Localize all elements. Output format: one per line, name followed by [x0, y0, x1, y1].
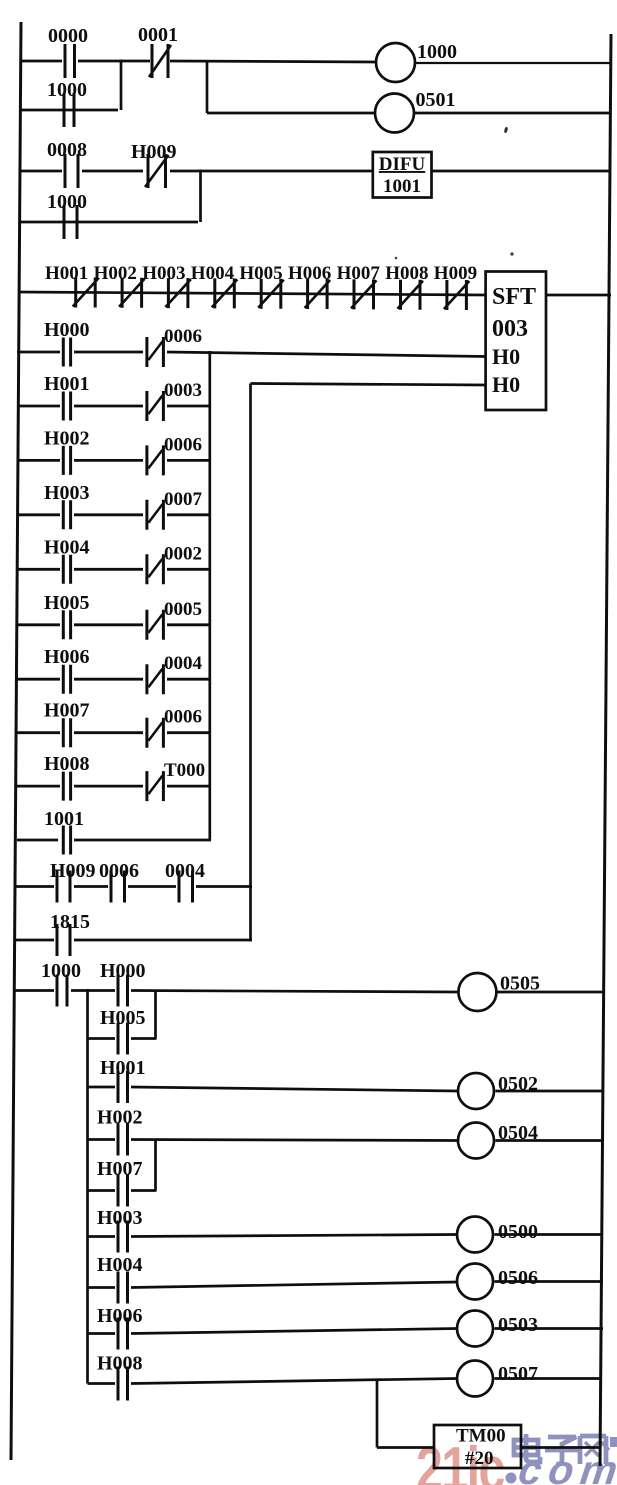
wire TM00 to right rail	[521, 1446, 601, 1449]
scan speck	[504, 126, 509, 133]
contact H007 (NC) shift-reset chain	[337, 263, 381, 309]
wire bus 3 to H008	[88, 1382, 116, 1385]
contact 0006 (NO)	[99, 860, 139, 903]
svg-text:H006: H006	[288, 263, 331, 284]
contact 0004 (NO)	[165, 860, 205, 903]
wire bus 3 to H003	[88, 1235, 116, 1238]
contact H005 (NO) parallel with H000	[100, 1007, 146, 1055]
wire H006 to 0004	[74, 678, 143, 681]
wire left rail to 1000	[14, 989, 54, 992]
svg-text:DIFU: DIFU	[379, 154, 426, 175]
contact H001 (NC) shift-reset chain	[45, 263, 98, 308]
contact 1000 (NO) parallel	[47, 191, 87, 239]
contact 0008 (NO)	[47, 139, 87, 188]
contact 0005 (NC) row H005	[147, 599, 202, 640]
wire T000 to vertical bus 1	[167, 785, 211, 788]
svg-text:H002: H002	[97, 1107, 143, 1129]
contact H002 (NC) shift-reset chain	[94, 263, 145, 308]
svg-text:H004: H004	[97, 1254, 143, 1276]
wire rung E series NC chain	[19, 292, 486, 295]
watermark blue square right edge	[610, 1437, 617, 1447]
wire left rail to H009	[15, 885, 54, 888]
contact 1000 (NO) parallel seal-in	[47, 79, 87, 127]
timer block TM00 #20	[434, 1425, 521, 1469]
wire 0001 to coil 1000	[170, 61, 377, 62]
wire bus 3 to H004	[88, 1286, 116, 1289]
contact H006 (NO)	[97, 1305, 143, 1350]
wire coil 0501 to right rail	[414, 112, 611, 115]
wire left rail to 1815	[14, 939, 54, 942]
wire SFT output to right rail	[546, 294, 611, 297]
wire bus 2 to SFT clock input H0	[251, 384, 487, 386]
contact H006 (NO) data input row	[44, 646, 90, 694]
svg-text:H005: H005	[239, 263, 282, 284]
svg-text:#20: #20	[465, 1448, 494, 1469]
wire H002 to 0006	[74, 459, 143, 462]
wire 1815 to vertical bus 2	[74, 939, 252, 942]
wire left rail to H000	[17, 351, 60, 354]
svg-text:1000: 1000	[47, 191, 87, 213]
svg-text:H000: H000	[100, 960, 146, 982]
watermark char zi	[545, 1437, 579, 1464]
wire 0008 to H009	[82, 170, 143, 173]
svg-text:H009: H009	[50, 860, 96, 882]
wire 0006 to 0004	[128, 885, 176, 888]
wire H000 row to SFT data input H0	[167, 352, 486, 357]
svg-text:H009: H009	[434, 263, 477, 284]
svg-text:H007: H007	[97, 1158, 143, 1180]
wire 0004 to vertical bus 2	[196, 885, 252, 888]
svg-text:H002: H002	[94, 263, 137, 284]
wire 1000 to H000	[71, 989, 115, 992]
wire coil 0502 to right rail	[496, 1090, 604, 1093]
contact H000 (NO) data input row	[44, 319, 90, 367]
svg-text:0503: 0503	[498, 1314, 538, 1336]
contact H006 (NC) shift-reset chain	[288, 263, 331, 309]
wire branch to TM00 box	[377, 1446, 434, 1449]
contact 0000 (NO)	[48, 25, 88, 78]
wire rung B parallel branch	[21, 109, 118, 112]
svg-text:0004: 0004	[165, 860, 205, 882]
svg-text:1001: 1001	[383, 176, 421, 197]
svg-text:H003: H003	[44, 482, 90, 504]
wire coil 0505 to right rail	[497, 991, 604, 994]
wire DIFU to right rail	[432, 170, 611, 173]
wire left rail to H003	[17, 513, 60, 516]
contact T000 (NC) row H008	[147, 760, 205, 801]
output coil 0505	[458, 973, 540, 1012]
contact H001 (NO)	[100, 1057, 146, 1103]
svg-text:1000: 1000	[41, 960, 81, 982]
svg-text:0006: 0006	[164, 326, 202, 347]
wire H004 to 0002	[74, 568, 143, 571]
contact H009 (NC)	[131, 141, 177, 188]
svg-text:TM00: TM00	[456, 1426, 506, 1447]
wire coil 0503 to right rail	[495, 1327, 604, 1330]
watermark .com	[506, 1473, 517, 1484]
svg-text:H004: H004	[191, 263, 235, 284]
output coil 0507	[457, 1361, 538, 1397]
wire bus 3 to H001	[88, 1086, 116, 1089]
wire H000 to 0006	[74, 351, 143, 354]
wire rung D parallel branch	[20, 221, 198, 224]
svg-text:H006: H006	[44, 646, 90, 668]
output coil 0500	[457, 1217, 538, 1253]
svg-text:H008: H008	[97, 1353, 143, 1375]
contact 0002 (NC) row H004	[147, 543, 202, 584]
contact H007 (NO) data input row	[44, 700, 90, 748]
svg-text:1815: 1815	[50, 911, 90, 933]
contact H001 (NO) data input row	[44, 373, 90, 421]
svg-text:H005: H005	[44, 592, 90, 614]
svg-text:0507: 0507	[498, 1363, 538, 1385]
wire bus 3 to H005	[88, 1037, 116, 1040]
wire coil 0500 to right rail	[495, 1233, 604, 1236]
svg-text:1001: 1001	[44, 808, 84, 830]
output coil 1000	[376, 41, 457, 82]
wire 0003 to vertical bus 1	[167, 405, 211, 408]
wire 0002 to vertical bus 1	[167, 568, 211, 571]
wire coil 0504 to right rail	[496, 1139, 604, 1142]
wire H007 to 0006	[74, 731, 143, 734]
wire branch to coil 0501	[207, 112, 376, 115]
svg-text:com: com	[516, 1447, 617, 1485]
wire vertical branch to TM00	[376, 1380, 379, 1448]
wire H003 to coil 0500	[131, 1235, 457, 1237]
contact H008 (NC) shift-reset chain	[385, 263, 428, 310]
wire left rail to H007	[17, 731, 60, 734]
wire 0005 to vertical bus 1	[167, 623, 211, 626]
right power rail	[600, 34, 611, 1466]
output coil 0504	[458, 1122, 538, 1159]
contact H009 (NO)	[50, 860, 96, 903]
watermark char dian	[514, 1434, 540, 1462]
contact 0007 (NC) row H003	[147, 489, 203, 530]
wire vertical bus 1 collecting data rows	[208, 351, 211, 840]
contact H003 (NO) data input row	[44, 482, 90, 530]
wire H003 to 0007	[74, 513, 143, 516]
output coil 0501	[375, 89, 456, 133]
wire vertical rejoin H005	[154, 991, 157, 1039]
contact H009 (NC) shift-reset chain	[434, 263, 477, 310]
contact H004 (NC) shift-reset chain	[191, 263, 238, 308]
contact 0006 (NC) row H007	[147, 707, 202, 748]
wire bus 3 to H006	[88, 1332, 116, 1335]
left power rail	[11, 22, 21, 1460]
svg-text:0007: 0007	[164, 489, 203, 510]
contact H004 (NO) data input row	[44, 536, 90, 584]
wire H001 to 0003	[74, 405, 143, 408]
svg-text:0000: 0000	[48, 25, 88, 47]
svg-text:0501: 0501	[416, 89, 456, 111]
contact 0004 (NC) row H006	[147, 653, 203, 694]
svg-text:003: 003	[492, 316, 528, 342]
svg-text:H003: H003	[97, 1207, 143, 1229]
output coil 0503	[457, 1311, 538, 1347]
contact H003 (NC) shift-reset chain	[142, 263, 191, 308]
svg-text:0003: 0003	[164, 380, 202, 401]
contact H008 (NO)	[97, 1353, 143, 1401]
function block DIFU 1001	[373, 152, 432, 198]
contact H000 (NO)	[100, 960, 146, 1007]
wire H001 to coil 0502	[131, 1087, 458, 1091]
svg-text:T000: T000	[164, 760, 205, 781]
wire H006 to coil 0503	[131, 1329, 457, 1334]
svg-text:1000: 1000	[417, 41, 457, 63]
scan speck	[510, 252, 513, 255]
wire H009 to 0006	[74, 885, 108, 888]
svg-text:H0: H0	[492, 372, 520, 397]
contact H007 (NO) parallel with H002	[97, 1158, 143, 1207]
svg-text:H006: H006	[97, 1305, 143, 1327]
wire rung A from left rail	[20, 60, 62, 63]
wire 0006 to vertical bus 1	[167, 731, 211, 734]
svg-text:SFT: SFT	[492, 284, 536, 310]
wire 1001 to vertical bus 1	[74, 839, 211, 842]
wire H009 to DIFU box	[170, 170, 373, 173]
svg-text:0002: 0002	[164, 543, 202, 564]
wire rung C from left rail	[20, 170, 62, 173]
svg-text:0005: 0005	[164, 599, 202, 620]
svg-text:H001: H001	[45, 263, 88, 284]
contact 0006 (NC) row H000	[147, 326, 202, 367]
svg-text:0500: 0500	[498, 1221, 538, 1243]
wire 0000 to 0001	[78, 60, 150, 63]
wire left rail to H006	[17, 678, 60, 681]
svg-text:H008: H008	[385, 263, 428, 284]
wire H000 to coil 0505	[131, 991, 459, 993]
svg-text:H003: H003	[142, 263, 185, 284]
contact 0006 (NC) row H002	[147, 434, 202, 475]
wire H008 to T000	[74, 785, 143, 788]
wire H002 to coil 0504	[131, 1140, 458, 1141]
svg-text:0001: 0001	[138, 24, 178, 46]
wire vertical rejoin H007	[154, 1140, 157, 1191]
contact H004 (NO)	[97, 1254, 143, 1304]
contact 1000 (NO) lower	[41, 960, 81, 1007]
wire left rail to H004	[17, 568, 60, 571]
scan speck	[395, 257, 398, 260]
svg-text:0004: 0004	[164, 653, 203, 674]
wire 0007 to vertical bus 1	[167, 513, 211, 516]
wire bus 3 to H007	[88, 1189, 116, 1192]
output coil 0506	[457, 1264, 538, 1300]
wire 0006 to vertical bus 1	[167, 459, 211, 462]
svg-text:H002: H002	[44, 427, 90, 449]
wire coil 1000 to right rail	[415, 62, 611, 64]
contact H005 (NO) data input row	[44, 592, 90, 640]
svg-text:0008: 0008	[47, 139, 87, 161]
watermark 21ic red text	[416, 1434, 505, 1485]
wire left rail to H001	[17, 405, 60, 408]
contact 1001 (NO) row	[44, 808, 84, 855]
svg-text:0006: 0006	[164, 434, 202, 455]
svg-text:H001: H001	[44, 373, 90, 395]
wire vertical bus 2 to SFT clock input	[249, 384, 252, 942]
svg-text:H001: H001	[100, 1057, 146, 1079]
svg-text:H004: H004	[44, 536, 90, 558]
contact H002 (NO)	[97, 1107, 143, 1156]
wire coil 0507 to right rail	[495, 1377, 603, 1380]
wire H005 rejoin	[131, 1037, 157, 1040]
svg-text:H007: H007	[337, 263, 381, 284]
contact H008 (NO) data input row	[44, 753, 90, 801]
watermark char wang	[580, 1436, 609, 1464]
output coil 0502	[458, 1073, 538, 1109]
wire coil 0506 to right rail	[495, 1280, 604, 1283]
svg-text:H005: H005	[100, 1007, 146, 1029]
svg-text:H008: H008	[44, 753, 90, 775]
contact 0003 (NC) row H001	[147, 380, 202, 421]
svg-text:H009: H009	[131, 141, 177, 163]
svg-text:0006: 0006	[99, 860, 139, 882]
svg-text:0506: 0506	[498, 1267, 538, 1289]
svg-text:0006: 0006	[164, 707, 202, 728]
wire 0004 to vertical bus 1	[167, 678, 211, 681]
wire H008 to coil 0507	[131, 1379, 457, 1384]
contact H005 (NC) shift-reset chain	[239, 263, 283, 309]
wire H004 to coil 0506	[131, 1282, 457, 1288]
wire left rail to H008	[17, 785, 60, 788]
wire left rail to 1001	[17, 839, 58, 842]
wire vertical bus 3 branch distribution	[86, 989, 89, 1384]
wire left rail to H005	[17, 623, 60, 626]
wire bus 3 to H002	[88, 1138, 116, 1141]
svg-text:H007: H007	[44, 700, 90, 722]
wire left rail to H002	[17, 459, 60, 462]
function block SFT 003 H0 H0 shift register	[486, 272, 546, 411]
contact H003 (NO)	[97, 1207, 143, 1253]
svg-text:1000: 1000	[47, 79, 87, 101]
svg-text:H000: H000	[44, 319, 90, 341]
wire vertical branch to 0501 rung	[206, 60, 209, 113]
wire H005 to 0005	[74, 623, 143, 626]
svg-text:H0: H0	[492, 344, 520, 369]
contact H002 (NO) data input row	[44, 427, 90, 475]
wire H007 rejoin	[131, 1189, 157, 1192]
contact 1815 (NO) parallel	[50, 911, 90, 956]
wire junction vertical rung B rejoin	[120, 60, 123, 111]
contact 0001 (NC)	[138, 24, 178, 78]
wire junction vertical rung D rejoin	[199, 170, 202, 223]
